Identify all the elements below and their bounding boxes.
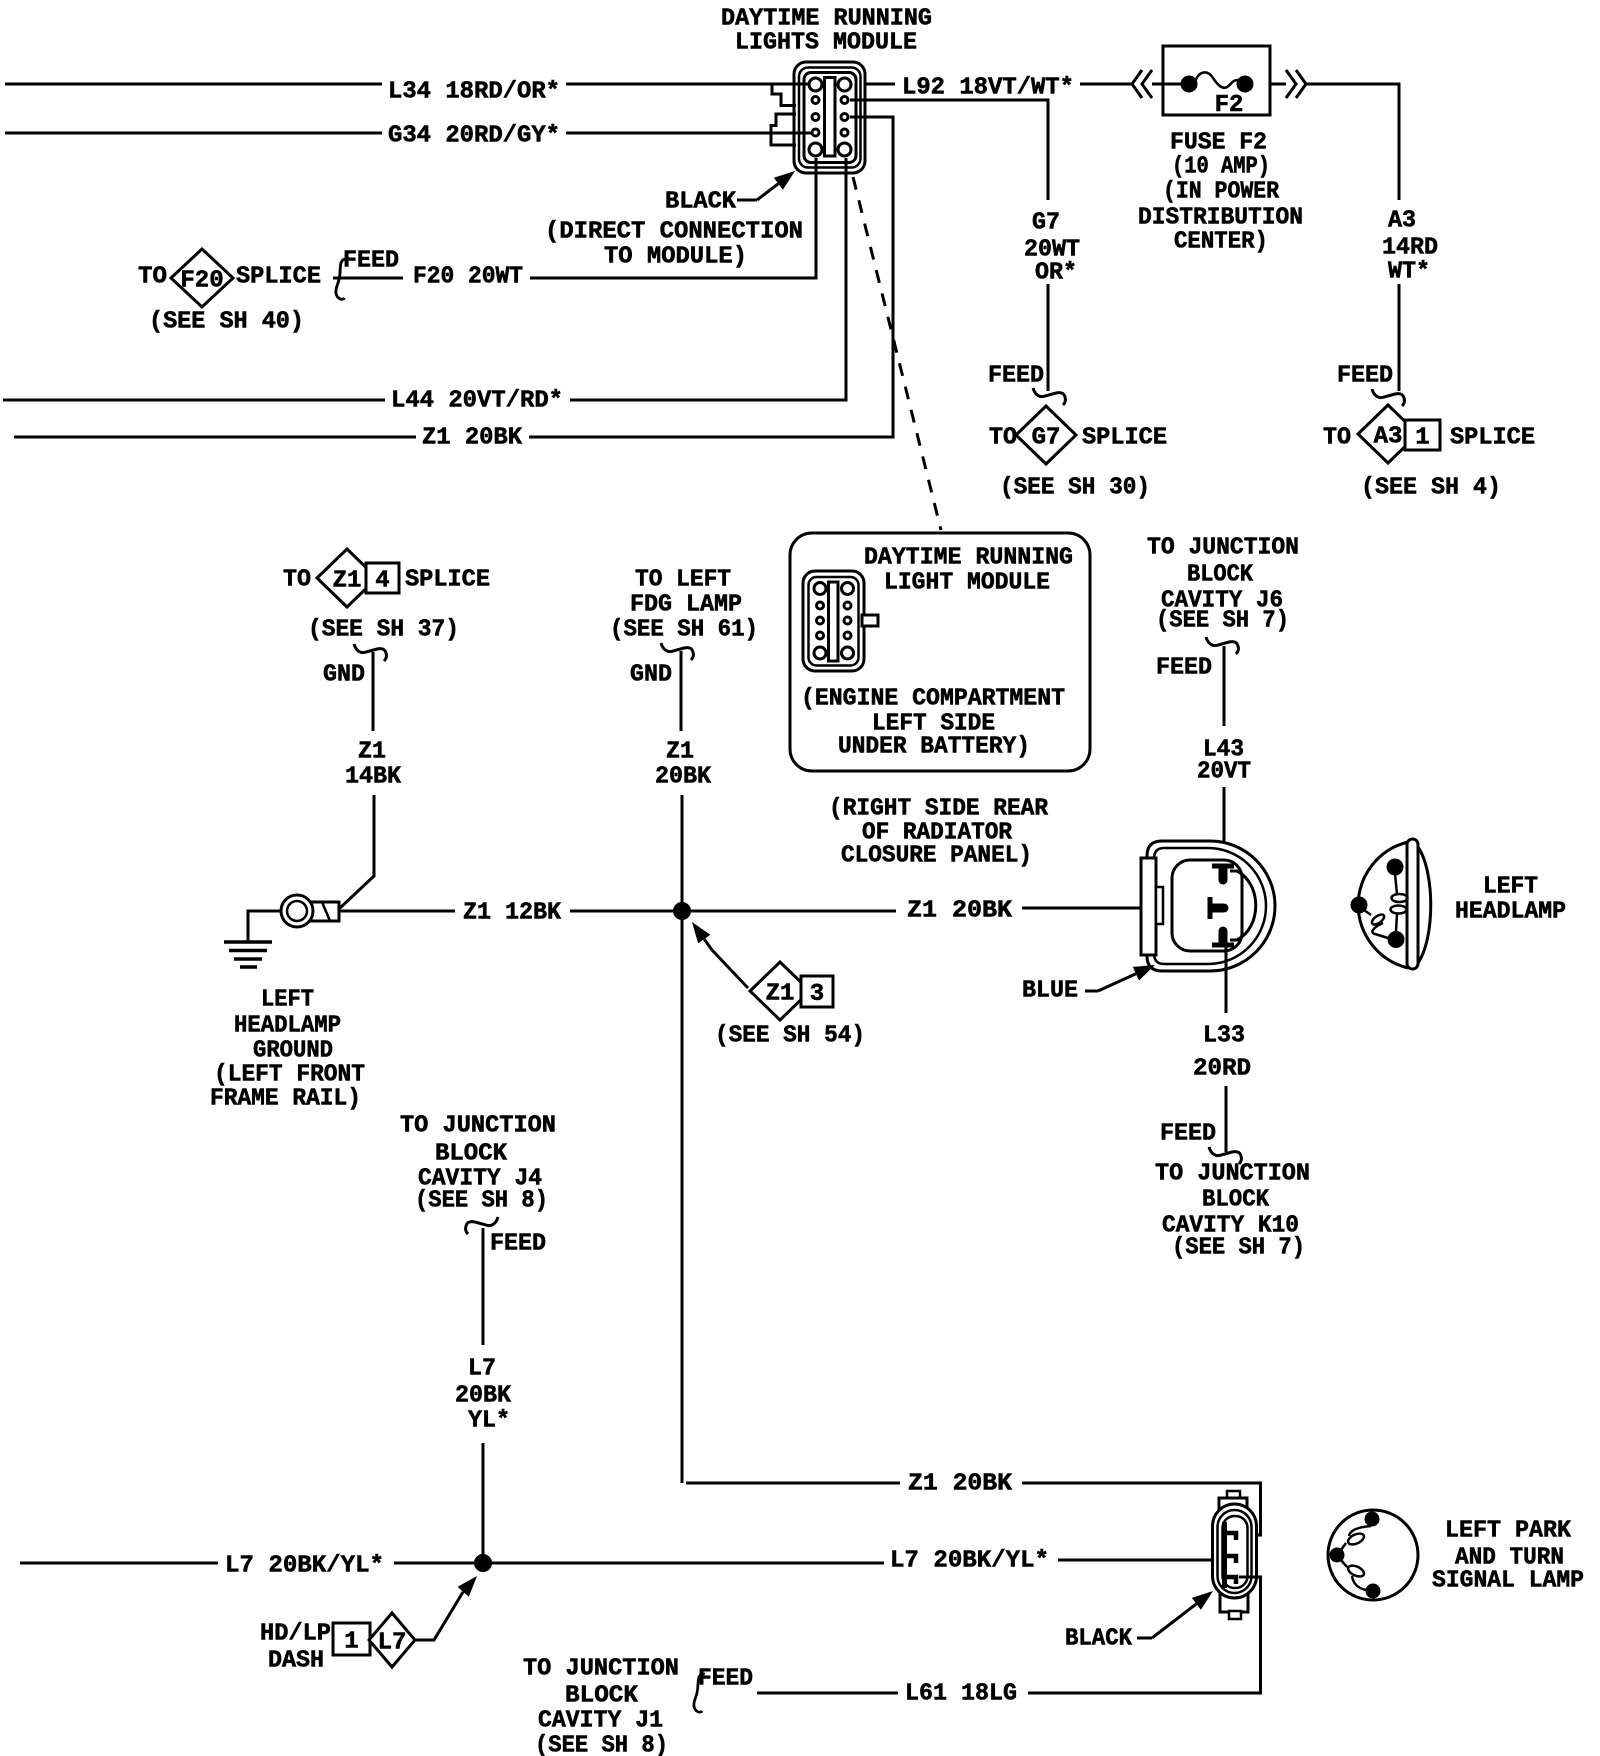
svg-text:CLOSURE PANEL): CLOSURE PANEL) [841, 843, 1032, 870]
svg-text:L7: L7 [468, 1356, 496, 1383]
svg-text:G7: G7 [1032, 425, 1061, 452]
svg-text:G7: G7 [1032, 210, 1060, 237]
wire L34 18RD/OR* right segment to module connector [566, 83, 812, 86]
connector C1 left key tab upper [772, 84, 796, 106]
svg-text:(DIRECT CONNECTION: (DIRECT CONNECTION [545, 219, 803, 246]
svg-text:SPLICE: SPLICE [1450, 425, 1535, 452]
svg-text:TO JUNCTION: TO JUNCTION [400, 1113, 556, 1140]
wire L44 20VT/RD* left segment [3, 399, 385, 402]
svg-text:20BK: 20BK [455, 1383, 512, 1410]
wire L43 20VT upper segment [1223, 646, 1226, 726]
splice cavity box 1 (A3) [1405, 420, 1440, 450]
svg-text:(SEE SH 54): (SEE SH 54) [715, 1023, 865, 1050]
svg-text:LEFT PARK: LEFT PARK [1445, 1518, 1572, 1545]
svg-text:(10 AMP): (10 AMP) [1172, 154, 1270, 181]
wire G7 from module connector (upper segment) [850, 100, 1048, 200]
svg-text:(SEE SH 61): (SEE SH 61) [610, 617, 758, 644]
svg-text:(SEE SH 40): (SEE SH 40) [149, 309, 304, 336]
svg-text:SPLICE: SPLICE [236, 264, 321, 291]
wire G34 stub into connector pin [794, 132, 812, 135]
svg-text:WT*: WT* [1388, 259, 1430, 286]
junction node (Z1 ground junction) [673, 902, 691, 920]
splice symbol Z1 (diamond, sh54) [750, 962, 810, 1020]
svg-text:FDG LAMP: FDG LAMP [630, 592, 742, 619]
splice symbol F20 (diamond) [171, 249, 233, 307]
svg-text:TO JUNCTION: TO JUNCTION [1147, 535, 1299, 562]
wire Z1 20BK left segment [14, 436, 416, 439]
svg-text:14RD: 14RD [1382, 235, 1438, 262]
wire L43 20VT lower segment into headlamp connector [1223, 787, 1226, 866]
svg-text:BLACK: BLACK [665, 189, 737, 216]
wire Z1 12BK right segment to junction [570, 910, 682, 913]
feed hook (J6) [1206, 637, 1238, 654]
svg-text:FRAME RAIL): FRAME RAIL) [210, 1086, 361, 1113]
svg-text:G34 20RD/GY*: G34 20RD/GY* [388, 123, 560, 150]
dashed leader from connector C1 to module picture box [853, 177, 941, 530]
svg-text:Z1 20BK: Z1 20BK [907, 898, 1013, 925]
wire Z1 14BK upper segment [372, 652, 375, 731]
svg-text:BLACK: BLACK [1065, 1626, 1133, 1653]
svg-text:(IN POWER: (IN POWER [1163, 179, 1280, 206]
svg-text:(RIGHT SIDE REAR: (RIGHT SIDE REAR [829, 796, 1049, 823]
wire G7 lower segment to FEED hook [1047, 284, 1050, 391]
svg-text:LEFT: LEFT [1483, 874, 1538, 901]
svg-text:Z1: Z1 [666, 739, 694, 766]
wire Z1 20BK park (horizontal left) [686, 1482, 900, 1485]
svg-text:(SEE SH 7): (SEE SH 7) [1172, 1235, 1305, 1262]
leader with arrow from Z1-3 splice to junction [712, 950, 748, 988]
svg-text:A3: A3 [1388, 208, 1416, 235]
wire A3 lower segment to FEED hook [1398, 284, 1401, 391]
svg-text:A3: A3 [1374, 424, 1403, 451]
svg-text:20VT: 20VT [1197, 759, 1251, 786]
svg-text:GND: GND [323, 662, 365, 689]
svg-text:1: 1 [1415, 425, 1429, 452]
svg-text:Z1: Z1 [358, 739, 386, 766]
svg-text:Z1: Z1 [333, 568, 362, 595]
svg-text:BLUE: BLUE [1022, 978, 1078, 1005]
left headlamp lamp symbol [1358, 842, 1408, 968]
svg-text:L61 18LG: L61 18LG [905, 1681, 1017, 1708]
svg-text:FEED: FEED [1156, 655, 1212, 682]
svg-text:4: 4 [375, 568, 389, 595]
wire Z1 20BK to headlamp (left segment) [691, 910, 896, 913]
feed hook (A3) [1372, 389, 1404, 406]
svg-text:L34 18RD/OR*: L34 18RD/OR* [388, 79, 560, 106]
svg-text:GROUND: GROUND [253, 1038, 333, 1065]
svg-text:L7 20BK/YL*: L7 20BK/YL* [225, 1553, 384, 1580]
svg-text:TO JUNCTION: TO JUNCTION [523, 1656, 679, 1683]
svg-text:(ENGINE COMPARTMENT: (ENGINE COMPARTMENT [801, 686, 1065, 713]
wire L33 20RD upper segment [1225, 945, 1228, 1013]
wire Z1 14BK lower segment to ring terminal [340, 795, 374, 908]
ring terminal (left headlamp ground) [311, 902, 339, 921]
module picture box (rounded) [790, 533, 1090, 771]
svg-text:(SEE SH 4): (SEE SH 4) [1361, 475, 1501, 502]
svg-text:LIGHTS MODULE: LIGHTS MODULE [735, 30, 917, 57]
svg-text:20BK: 20BK [655, 764, 712, 791]
svg-text:F20: F20 [180, 268, 223, 295]
feed hook (J4) [466, 1217, 498, 1234]
svg-text:TO: TO [989, 425, 1017, 452]
svg-text:SPLICE: SPLICE [405, 567, 490, 594]
svg-text:HEADLAMP: HEADLAMP [234, 1013, 341, 1040]
svg-text:(SEE SH 7): (SEE SH 7) [1156, 608, 1289, 635]
svg-text:LIGHT MODULE: LIGHT MODULE [884, 570, 1050, 597]
wire Z1 20BK fog upper segment [680, 651, 683, 731]
svg-text:UNDER BATTERY): UNDER BATTERY) [838, 734, 1030, 761]
wire L34 stub into connector pin [794, 83, 810, 86]
svg-text:FEED: FEED [343, 248, 399, 275]
svg-text:BLOCK: BLOCK [1187, 562, 1254, 589]
svg-text:20RD: 20RD [1193, 1056, 1251, 1083]
svg-text:(SEE SH 30): (SEE SH 30) [1000, 475, 1150, 502]
svg-text:FEED: FEED [988, 363, 1044, 390]
svg-text:SPLICE: SPLICE [1082, 425, 1167, 452]
svg-text:L92 18VT/WT*: L92 18VT/WT* [902, 75, 1074, 102]
svg-text:L7 20BK/YL*: L7 20BK/YL* [890, 1548, 1049, 1575]
feed hook (fog lamp) [661, 643, 693, 660]
wire Z1 20BK right segment to module connector pin [529, 117, 893, 437]
svg-text:(SEE SH 37): (SEE SH 37) [308, 617, 459, 644]
headlamp connector pin 1 (top) [1212, 864, 1234, 869]
feed hook (G7) [1033, 388, 1065, 405]
svg-text:SIGNAL LAMP: SIGNAL LAMP [1432, 1568, 1584, 1595]
svg-text:FEED: FEED [698, 1666, 753, 1693]
module connector icon (in picture box) [803, 571, 864, 671]
wire L7 20BK/YL* right segment to park lamp connector [1058, 1559, 1224, 1562]
wire L61 18LG left segment [757, 1692, 898, 1695]
wire L33 20RD lower segment [1225, 1086, 1228, 1152]
svg-text:TO LEFT: TO LEFT [635, 567, 731, 594]
svg-text:(SEE SH 8): (SEE SH 8) [535, 1733, 668, 1756]
wire L44 20VT/RD* right segment to module connector pin [570, 158, 846, 400]
park/turn lamp connector (black) body [1227, 1491, 1240, 1499]
svg-text:DISTRIBUTION: DISTRIBUTION [1138, 205, 1303, 232]
svg-text:CENTER): CENTER) [1174, 229, 1268, 256]
svg-text:BLOCK: BLOCK [1202, 1187, 1270, 1214]
svg-text:FEED: FEED [490, 1231, 546, 1258]
splice cavity box 4 [366, 563, 399, 593]
wire L7 20BK/YL* mid segment through junction [394, 1562, 884, 1565]
svg-text:TO: TO [138, 264, 167, 291]
splice cavity box 3 [801, 976, 833, 1007]
svg-text:3: 3 [810, 981, 824, 1008]
svg-text:L44 20VT/RD*: L44 20VT/RD* [391, 388, 563, 415]
wire F20 20WT to module connector pin [530, 158, 816, 278]
splice symbol Z1 (diamond, sh37) [317, 549, 377, 607]
feed hook (K10) [1209, 1147, 1241, 1164]
svg-text:F2: F2 [1215, 92, 1244, 119]
wire Z1 20BK fog lower segment through junction [681, 795, 684, 1483]
fuse F2 (box with element) [1163, 46, 1270, 115]
svg-text:LEFT: LEFT [261, 987, 314, 1014]
inline connector chevrons (left of fuse F2) [1132, 70, 1152, 98]
ground symbol (left front frame rail) [224, 940, 272, 944]
svg-text:FEED: FEED [1337, 363, 1393, 390]
svg-text:(SEE SH 8): (SEE SH 8) [415, 1188, 548, 1215]
splice symbol G7 (diamond) [1016, 406, 1076, 464]
wire G34 20RD/GY* right segment to module connector [566, 132, 812, 135]
svg-text:GND: GND [630, 662, 672, 689]
wire Z1 20BK to headlamp (right segment) [1022, 907, 1210, 910]
wire Z1 12BK left segment [339, 910, 455, 913]
wire L61 18LG right segment to park connector [1028, 1577, 1261, 1693]
splice symbol A3 (diamond) [1358, 405, 1418, 463]
left park and turn signal lamp symbol [1328, 1510, 1418, 1600]
junction node (L7 junction) [474, 1554, 492, 1572]
svg-text:TO MODULE): TO MODULE) [604, 244, 747, 271]
svg-text:HD/LP: HD/LP [260, 1621, 331, 1648]
svg-text:14BK: 14BK [345, 764, 402, 791]
svg-text:OR*: OR* [1035, 260, 1077, 287]
connector C1 daytime running lights module (10-pin, black) [794, 62, 865, 173]
connector C1 left key tab lower [771, 114, 796, 145]
wire L7 20BK/YL* far-left segment [20, 1562, 218, 1565]
feed hook (Z1 sh37) [354, 644, 386, 661]
wire L34 18RD/OR* left segment [5, 83, 382, 86]
svg-text:TO: TO [1323, 425, 1351, 452]
svg-text:F20 20WT: F20 20WT [413, 264, 523, 291]
wire L92 18VT/WT* to fuse [1080, 83, 1131, 86]
leader with arrow from L7 splice to junction [415, 1592, 463, 1640]
svg-text:BLOCK: BLOCK [565, 1683, 639, 1710]
svg-text:FEED: FEED [1160, 1121, 1216, 1148]
wire G34 20RD/GY* left segment [5, 132, 382, 135]
headlamp connector (blue) body [1147, 841, 1275, 971]
svg-text:L33: L33 [1203, 1023, 1245, 1050]
svg-text:FUSE F2: FUSE F2 [1170, 130, 1267, 157]
svg-text:Z1 20BK: Z1 20BK [908, 1471, 1013, 1498]
curly bracket FEED (J1) [694, 1674, 705, 1712]
headlamp connector pin 3 (bottom) [1212, 943, 1234, 948]
svg-text:Z1: Z1 [766, 981, 795, 1008]
svg-text:DASH: DASH [268, 1648, 324, 1675]
svg-text:TO JUNCTION: TO JUNCTION [1155, 1161, 1310, 1188]
svg-text:BLOCK: BLOCK [435, 1141, 508, 1168]
svg-text:(LEFT FRONT: (LEFT FRONT [214, 1062, 365, 1089]
svg-text:L7: L7 [378, 1630, 407, 1657]
headlamp connector pin 2 (middle) [1208, 897, 1213, 919]
wire from ring terminal to ground [248, 911, 281, 941]
svg-text:YL*: YL* [468, 1408, 510, 1435]
curly bracket FEED (F20) [336, 259, 348, 299]
svg-text:Z1 20BK: Z1 20BK [422, 425, 523, 452]
wire L92 18VT/WT* from connector [866, 83, 895, 86]
svg-text:DAYTIME RUNNING: DAYTIME RUNNING [721, 6, 932, 33]
wire A3 from fuse to splice (upper segment) [1306, 84, 1399, 200]
splice cavity box 1 (L7) [333, 1623, 370, 1655]
svg-text:DAYTIME RUNNING: DAYTIME RUNNING [864, 545, 1073, 572]
wire L7 20BK YL* lower segment to junction [482, 1443, 485, 1563]
svg-text:CAVITY J1: CAVITY J1 [538, 1708, 663, 1735]
inline connector chevrons (right of fuse F2) [1286, 70, 1306, 98]
svg-text:TO: TO [283, 567, 311, 594]
svg-text:1: 1 [344, 1629, 358, 1656]
svg-text:Z1 12BK: Z1 12BK [463, 900, 562, 927]
splice symbol L7 (diamond) [369, 1613, 415, 1667]
wire L7 20BK YL* upper segment [482, 1228, 485, 1345]
svg-text:HEADLAMP: HEADLAMP [1455, 899, 1566, 926]
wire Z1 20BK park right segment [1022, 1483, 1261, 1535]
